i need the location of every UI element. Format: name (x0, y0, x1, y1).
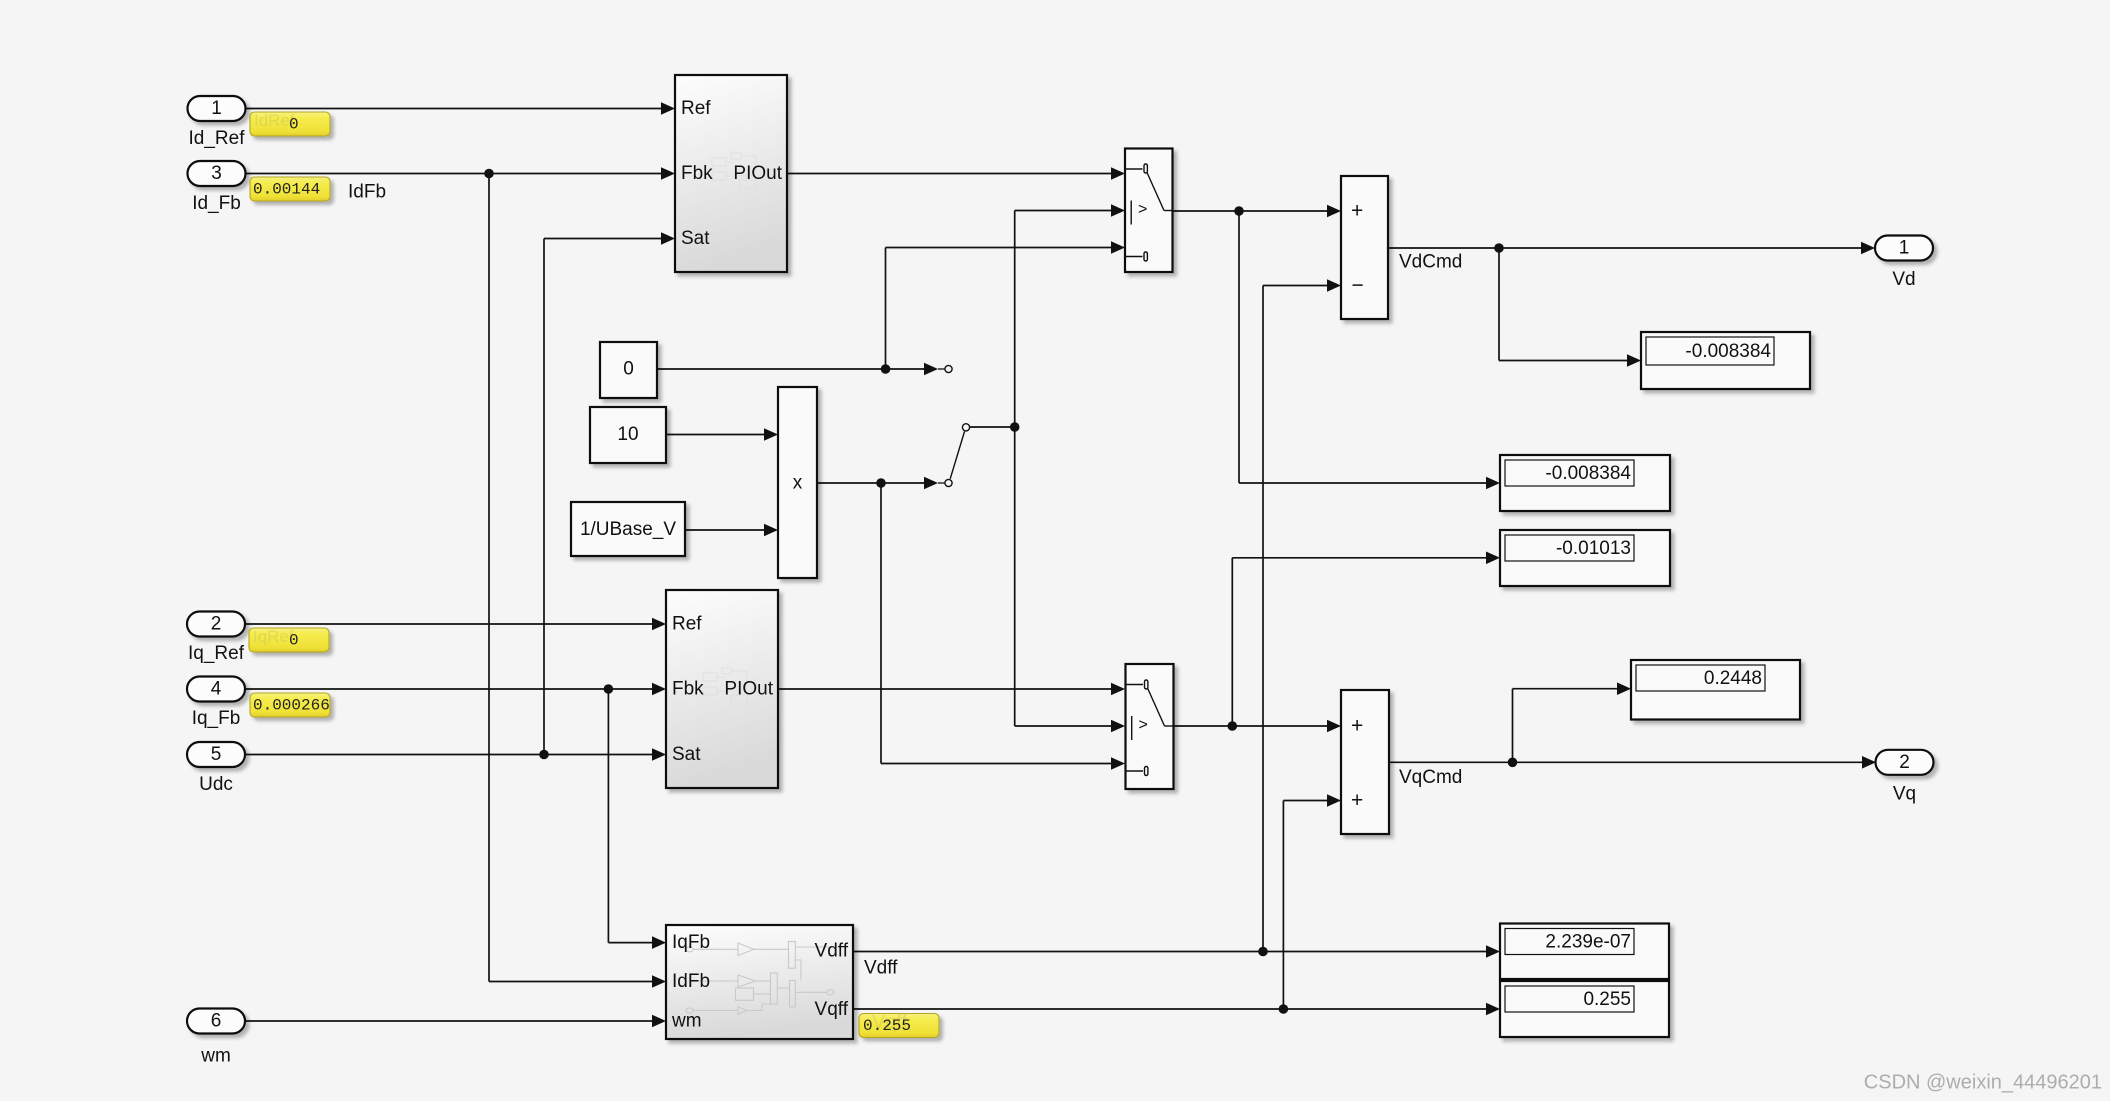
svg-text:VqCmd: VqCmd (1399, 767, 1462, 788)
svg-text:IdFb: IdFb (672, 971, 710, 992)
svg-text:0: 0 (289, 632, 299, 650)
svg-text:1/UBase_V: 1/UBase_V (580, 519, 676, 540)
svg-text:Udc: Udc (199, 774, 233, 795)
svg-text:-0.01013: -0.01013 (1556, 538, 1631, 559)
svg-text:0.255: 0.255 (863, 1017, 911, 1035)
svg-text:2: 2 (1899, 752, 1910, 773)
svg-text:10: 10 (617, 424, 638, 445)
svg-text:0.2448: 0.2448 (1704, 668, 1762, 689)
svg-text:+: + (1351, 715, 1363, 738)
svg-text:4: 4 (211, 679, 222, 700)
svg-text:0: 0 (623, 359, 634, 380)
svg-text:-0.008384: -0.008384 (1545, 463, 1631, 484)
svg-text:Vd: Vd (1892, 269, 1915, 290)
svg-text:Sat: Sat (672, 744, 701, 765)
svg-text:1: 1 (1899, 238, 1910, 259)
svg-text:CSDN @weixin_44496201: CSDN @weixin_44496201 (1864, 1072, 2102, 1094)
svg-text:Id_Ref: Id_Ref (189, 128, 246, 149)
svg-text:Fbk: Fbk (681, 163, 713, 184)
svg-text:2: 2 (211, 614, 222, 635)
svg-text:Sat: Sat (681, 228, 710, 249)
svg-text:Vdff: Vdff (815, 941, 849, 962)
svg-text:Fbk: Fbk (672, 679, 704, 700)
svg-text:Vdff: Vdff (864, 958, 898, 979)
svg-text:>: > (1138, 201, 1147, 218)
svg-text:IdFb: IdFb (348, 182, 386, 203)
svg-text:1: 1 (211, 98, 222, 119)
svg-text:0.255: 0.255 (1583, 989, 1631, 1010)
svg-text:Ref: Ref (681, 98, 711, 119)
svg-text:0: 0 (289, 116, 299, 134)
svg-text:Vqff: Vqff (815, 999, 849, 1020)
svg-text:+: + (1351, 200, 1363, 223)
svg-text:IqFb: IqFb (672, 932, 710, 953)
svg-text:Id_Fb: Id_Fb (192, 193, 241, 214)
svg-text:5: 5 (211, 744, 222, 765)
svg-text:x: x (793, 473, 803, 494)
svg-text:3: 3 (211, 163, 222, 184)
svg-text:wm: wm (200, 1046, 231, 1067)
svg-text:6: 6 (211, 1011, 222, 1032)
svg-text:PIOut: PIOut (733, 163, 782, 184)
svg-text:2.239e-07: 2.239e-07 (1545, 932, 1631, 953)
svg-text:>: > (1139, 717, 1148, 734)
svg-text:PIOut: PIOut (724, 679, 773, 700)
svg-text:-0.008384: -0.008384 (1685, 341, 1771, 362)
svg-text:−: − (1352, 274, 1364, 297)
svg-text:Vq: Vq (1893, 784, 1916, 805)
svg-text:IqRef: IqRef (253, 627, 294, 646)
svg-text:0.00144: 0.00144 (253, 181, 320, 199)
svg-text:wm: wm (671, 1011, 702, 1032)
svg-text:+: + (1351, 789, 1363, 812)
svg-text:VdCmd: VdCmd (1399, 252, 1462, 273)
svg-text:Iq_Ref: Iq_Ref (188, 643, 245, 664)
svg-text:Iq_Fb: Iq_Fb (192, 708, 241, 729)
svg-text:Ref: Ref (672, 614, 702, 635)
svg-text:0.000266: 0.000266 (253, 697, 330, 715)
